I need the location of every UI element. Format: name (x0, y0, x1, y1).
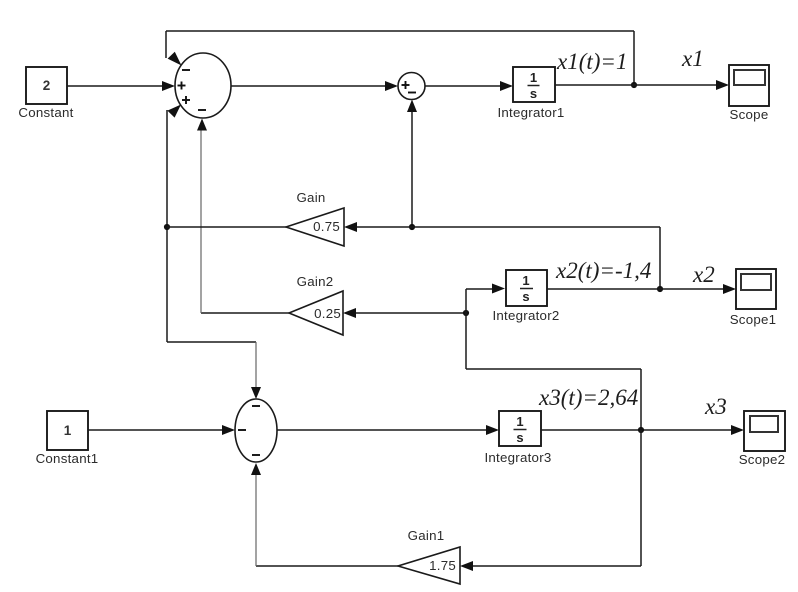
gain block Gain (286, 190, 344, 246)
svg-text:s: s (530, 86, 537, 101)
wire x3 Integrator3 to Scope2 (541, 425, 744, 435)
svg-text:x1: x1 (681, 46, 704, 71)
gain block Gain1 (398, 528, 460, 584)
junction dot on x3 wire (638, 427, 644, 433)
svg-text:0.25: 0.25 (314, 306, 341, 321)
svg-text:x3(t)=2,64: x3(t)=2,64 (538, 385, 638, 410)
svg-text:Constant1: Constant1 (36, 451, 99, 466)
constant block Constant (18, 67, 73, 120)
wire Gain2 output up into Sum1 bottom (197, 119, 289, 314)
svg-text:1.75: 1.75 (429, 558, 456, 573)
integrator block Integrator2 (492, 270, 559, 323)
junction dot Gain output (164, 224, 170, 230)
junction dot on Gain input wire (409, 224, 415, 230)
wire x1 feedback top into Sum1 upper-left (166, 31, 634, 85)
wire x3 to Gain2 input (343, 308, 466, 318)
wire Sum2 to Integrator1 (425, 81, 513, 91)
wire x3 feedback to Gain1 input (460, 430, 641, 571)
svg-text:2: 2 (43, 78, 51, 93)
wire Gain1 output up into Sum3 bottom (251, 463, 398, 566)
svg-text:1: 1 (522, 273, 529, 288)
wire x2 to Gain input (344, 222, 660, 289)
svg-text:Scope2: Scope2 (739, 452, 786, 467)
wire x2 Integrator2 to Scope1 (547, 284, 736, 294)
svg-text:0.75: 0.75 (313, 219, 340, 234)
svg-text:Constant: Constant (18, 105, 73, 120)
wire Sum3 output to Integrator3 (277, 425, 499, 435)
svg-text:s: s (516, 430, 523, 445)
sum block Sum1 (175, 53, 231, 118)
svg-text:1: 1 (530, 70, 537, 85)
svg-text:x3: x3 (704, 394, 727, 419)
svg-text:Gain2: Gain2 (297, 274, 334, 289)
svg-text:Integrator1: Integrator1 (497, 105, 564, 120)
sum block Sum3 (235, 399, 277, 462)
svg-text:Integrator3: Integrator3 (484, 450, 551, 465)
svg-text:Integrator2: Integrator2 (492, 308, 559, 323)
svg-text:x1(t)=1: x1(t)=1 (556, 49, 627, 74)
svg-text:Gain: Gain (296, 190, 325, 205)
svg-text:1: 1 (64, 423, 72, 438)
integrator block Integrator3 (484, 411, 551, 465)
wire Constant to Sum1 (67, 81, 175, 91)
wire Gain output up into Sum1 lower-left (167, 105, 181, 228)
junction dot on x2 wire (657, 286, 663, 292)
svg-text:x2: x2 (692, 262, 715, 287)
scope block Scope1 (730, 269, 777, 327)
wire x1 Integrator1 to Scope (555, 80, 729, 90)
wire Sum1 output to Sum2 (231, 81, 398, 91)
svg-text:s: s (522, 289, 529, 304)
svg-text:Scope1: Scope1 (730, 312, 777, 327)
scope block Scope (729, 65, 769, 122)
wire Gain output down to Sum3 top (167, 227, 261, 399)
wire x2 branch up into Sum2 bottom (407, 100, 417, 228)
wire Constant1 to Sum3 (88, 425, 235, 435)
svg-text:x2(t)=-1,4: x2(t)=-1,4 (555, 258, 651, 283)
junction dot on x1 wire (631, 82, 637, 88)
wire Gain output horizontal (167, 226, 286, 228)
constant block Constant1 (36, 411, 99, 466)
gain block Gain2 (289, 274, 343, 335)
svg-text:Gain1: Gain1 (408, 528, 445, 543)
wire branch up to Integrator2 input (466, 284, 505, 314)
junction dot x3 branch (463, 310, 469, 316)
wire branch down from x3 junction (466, 313, 641, 430)
integrator block Integrator1 (497, 67, 564, 120)
svg-text:Scope: Scope (730, 107, 769, 122)
scope block Scope2 (739, 411, 786, 467)
svg-text:1: 1 (516, 414, 523, 429)
sum block Sum2 (398, 73, 425, 100)
